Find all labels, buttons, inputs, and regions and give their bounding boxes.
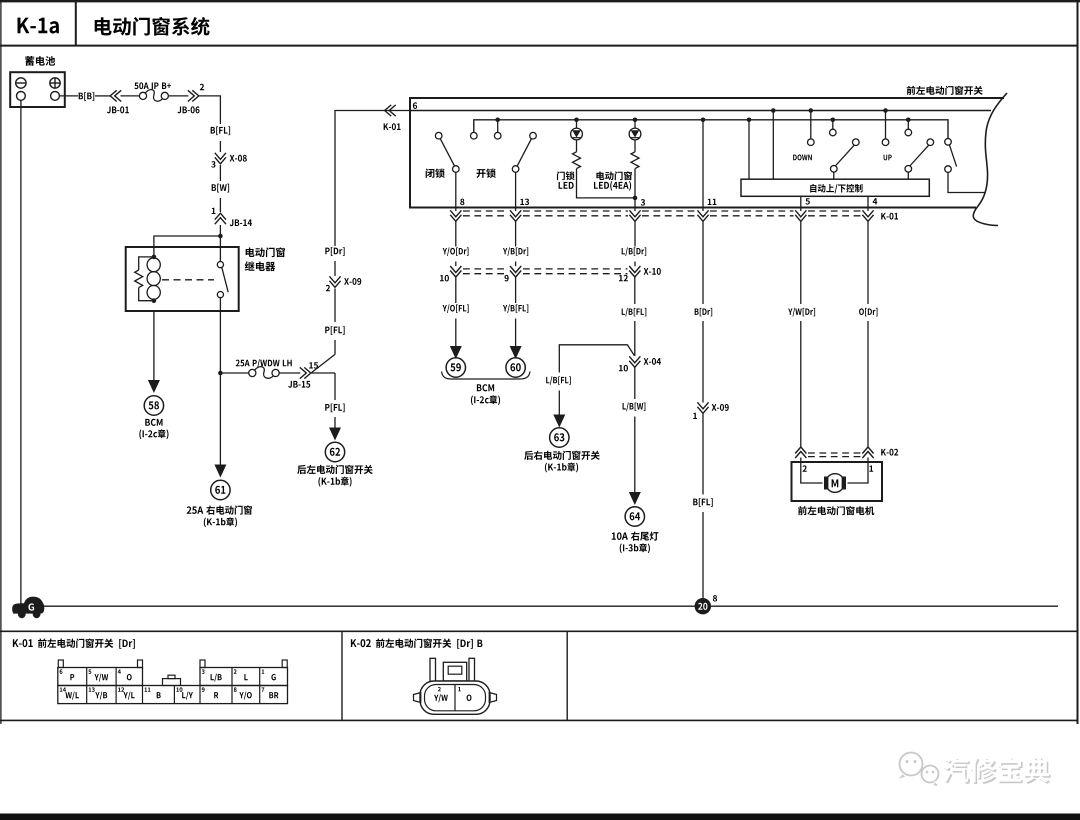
wire sub-bus to control box bbox=[747, 118, 752, 123]
node 63 bbox=[550, 428, 569, 447]
door lock LED bbox=[574, 118, 579, 123]
contact to sub-bus dot bbox=[495, 118, 500, 123]
prongs bbox=[430, 658, 436, 681]
wire bbox=[95, 95, 111, 97]
wire pin11 down bbox=[702, 221, 704, 304]
DOWN switch sub-bus contact bbox=[831, 118, 836, 123]
label lock bbox=[426, 169, 435, 178]
junction bbox=[218, 234, 223, 239]
front left window motor box bbox=[792, 462, 883, 501]
battery negative wire to ground bbox=[20, 100, 22, 606]
ground symbol car with G bbox=[12, 597, 44, 614]
battery bbox=[10, 72, 65, 107]
connector K-02 row bbox=[795, 452, 806, 459]
wire to corner bbox=[199, 96, 221, 124]
relay resistor parallel bbox=[139, 257, 154, 270]
UP switch blade contact bbox=[927, 139, 934, 146]
connector JB-06 bbox=[200, 84, 204, 90]
wire corner down bbox=[335, 111, 385, 247]
wire pin8 down bbox=[455, 221, 457, 247]
K-01 connector chevrons row bbox=[450, 210, 461, 217]
connector JB-15 pin 15 bbox=[300, 367, 307, 378]
node 60 bbox=[506, 358, 525, 377]
wire label B[W] bbox=[212, 184, 216, 191]
UP switch sub-bus contact bbox=[906, 118, 911, 123]
torn edge wave bbox=[973, 93, 1007, 226]
connector X-08 pin 3 bbox=[215, 153, 226, 160]
label BCM bbox=[477, 384, 482, 391]
connector section top line bbox=[0, 630, 1079, 632]
unlock switch common bbox=[512, 166, 519, 173]
page outer border right bbox=[1077, 0, 1079, 724]
battery plus post bbox=[51, 92, 60, 101]
connector X-09 pin 1 bbox=[697, 402, 708, 409]
label unlock bbox=[476, 169, 485, 178]
label BCM bbox=[145, 419, 150, 426]
node 59 bbox=[446, 358, 465, 377]
wire bus6 to control box bbox=[771, 108, 776, 113]
label I-2c bbox=[139, 430, 141, 440]
title K-1a bbox=[18, 18, 30, 34]
UP switch bus contact bbox=[883, 108, 888, 113]
power window LED(4EA) bbox=[633, 118, 638, 123]
pin 11 wire bbox=[701, 118, 706, 123]
rightmost switch contact bbox=[945, 139, 952, 146]
wire bbox=[219, 141, 221, 152]
watermark icon bbox=[900, 753, 939, 783]
bottom row labels bbox=[65, 692, 71, 698]
arrow to 64 bbox=[629, 492, 641, 505]
rightmost switch blade open bbox=[949, 145, 956, 167]
arrow to 58 bbox=[148, 380, 160, 393]
wire Y/O[FL] bbox=[455, 277, 457, 303]
center latch bbox=[163, 679, 181, 686]
connector X-04 pin 10 bbox=[629, 356, 640, 363]
arrow to 63 bbox=[553, 415, 565, 428]
unlock switch blade bbox=[517, 139, 531, 167]
latch bbox=[443, 662, 466, 681]
wire to motor pin 1 bbox=[867, 458, 869, 463]
relay switch output wire bbox=[219, 311, 221, 465]
diagonal joint bbox=[312, 354, 336, 372]
junction to window fuse bbox=[218, 371, 223, 376]
label DOWN bbox=[793, 155, 797, 161]
relay label line2 bbox=[245, 261, 255, 270]
DOWN switch bus contact bbox=[809, 108, 814, 113]
label door lock LED bbox=[557, 171, 565, 180]
lock switch contact bbox=[435, 132, 442, 139]
auto up/down control box bbox=[741, 179, 929, 196]
node 64 bbox=[625, 507, 644, 526]
contact to sub-bus bbox=[471, 132, 478, 139]
pin 8 wire bbox=[455, 172, 457, 211]
label UP bbox=[884, 155, 888, 161]
wire battery plus to fuse bbox=[59, 95, 78, 97]
wire label P[FL] bbox=[325, 404, 329, 411]
wire label B[FL] bbox=[211, 127, 215, 134]
label rear-right power window switch bbox=[524, 451, 533, 460]
bus 6 wire exiting switch to left bbox=[384, 110, 410, 112]
relay dashed actuator line bbox=[162, 279, 214, 281]
wire Y/W[Dr] bbox=[800, 221, 802, 304]
K-02 section label bbox=[351, 639, 357, 647]
DOWN switch blade bbox=[835, 145, 854, 166]
battery minus terminal bbox=[16, 78, 26, 88]
label rear-left power window switch bbox=[297, 465, 306, 474]
arrow to 60 bbox=[510, 346, 522, 359]
wire Y/B[FL] bbox=[515, 277, 517, 303]
relay coil bbox=[152, 255, 157, 260]
UP switch common bbox=[905, 166, 912, 173]
wire pin13 down bbox=[515, 221, 517, 247]
wire L/B[W] bbox=[634, 368, 636, 400]
node 62 bbox=[325, 442, 344, 461]
K-01 section label bbox=[13, 639, 19, 647]
pin 4 wire bbox=[867, 196, 869, 211]
relay switch bbox=[219, 247, 221, 262]
arrow to 62 bbox=[329, 428, 341, 441]
connector section bottom line bbox=[0, 719, 1079, 721]
page outer border top bbox=[0, 0, 1080, 2]
label Y/B[Dr] bbox=[503, 248, 507, 254]
UP switch blade bbox=[910, 145, 929, 166]
label 25A right power window bbox=[187, 506, 192, 513]
sub bus line bbox=[474, 120, 948, 139]
inner oval bbox=[425, 685, 486, 711]
power window relay box bbox=[126, 247, 239, 311]
wire L/B[FL] bbox=[634, 277, 636, 304]
label 10A right tail lamp bbox=[612, 533, 616, 540]
LED resistor bbox=[634, 140, 636, 152]
wire label P[FL] bbox=[325, 327, 329, 334]
wire down to 62 bbox=[334, 373, 336, 400]
front left power window switch label bbox=[907, 86, 916, 95]
wire O[Dr] bbox=[867, 221, 869, 304]
ground bus bbox=[43, 605, 1058, 607]
branch to 63 bbox=[559, 345, 634, 373]
connector X-10 row bbox=[450, 266, 461, 273]
label Y/O[Dr] bbox=[443, 248, 447, 254]
fuse 50A IP B+ bbox=[134, 82, 138, 89]
watermark text bbox=[944, 759, 970, 784]
lock switch blade bbox=[440, 139, 454, 167]
section divider 2 bbox=[566, 631, 568, 720]
top row right group bbox=[200, 668, 288, 686]
relay coil wire bbox=[153, 247, 155, 258]
title bar separator line bbox=[0, 45, 1079, 47]
LED resistor bbox=[576, 140, 578, 152]
connector JB-14 pin 1 bbox=[212, 208, 216, 214]
DOWN switch common bbox=[831, 166, 838, 173]
wire to pin3 join bbox=[577, 169, 636, 198]
arrow to 59 bbox=[450, 346, 462, 359]
outer oval bbox=[420, 681, 490, 714]
wire to relay coil bbox=[154, 236, 221, 247]
pin 5 wire bbox=[800, 196, 802, 211]
wire bbox=[121, 95, 140, 97]
dashed link lines bbox=[463, 210, 509, 212]
connector JB-01 bbox=[115, 90, 122, 101]
lock switch common bbox=[453, 166, 460, 173]
rightmost switch lower contact bbox=[945, 166, 952, 173]
bottom black bar bbox=[0, 814, 1080, 820]
arrow to 61 bbox=[214, 465, 226, 478]
unlock switch blade contact bbox=[530, 132, 537, 139]
label B[Dr] bbox=[695, 308, 699, 314]
connector X-09 pin 2 bbox=[329, 276, 340, 283]
junction pin 3 bbox=[633, 196, 638, 201]
motor M bbox=[824, 477, 828, 490]
DOWN switch blade contact bbox=[853, 139, 860, 146]
wire bbox=[219, 225, 221, 247]
bus 6 line bbox=[410, 110, 991, 112]
wire bbox=[334, 261, 336, 276]
top row labels bbox=[70, 674, 74, 680]
switch box outline bbox=[410, 98, 1004, 208]
title text bbox=[95, 17, 112, 35]
relay coil output wire bbox=[153, 311, 155, 380]
wire bbox=[219, 165, 221, 181]
pin 13 wire bbox=[515, 172, 517, 211]
wire to torn edge bbox=[948, 172, 985, 192]
node 20 ground junction bbox=[695, 598, 711, 614]
wire B[FL] bbox=[702, 414, 704, 495]
fuse 25A P/WDW LH bbox=[236, 360, 240, 367]
label front left power window motor bbox=[798, 506, 807, 515]
battery label bbox=[25, 56, 34, 66]
wire bbox=[279, 372, 300, 374]
label window LED bbox=[596, 171, 604, 180]
node 61 bbox=[211, 480, 230, 499]
node 58 bbox=[144, 396, 163, 415]
page outer border left bbox=[0, 0, 2, 724]
wire bbox=[169, 95, 189, 97]
wire bbox=[219, 198, 221, 212]
bottom row bbox=[58, 686, 288, 704]
wire bbox=[311, 372, 335, 374]
wire bbox=[334, 289, 336, 323]
wire label P[Dr] bbox=[325, 248, 329, 255]
side wings bbox=[414, 693, 421, 703]
connector K-01 top bbox=[389, 105, 396, 116]
mounting tabs bbox=[58, 660, 63, 668]
label K-1b bbox=[204, 518, 206, 528]
wire pin3 down bbox=[634, 221, 636, 247]
title cell divider bbox=[75, 0, 77, 46]
wire label B[B] bbox=[79, 93, 83, 100]
relay label line1 bbox=[246, 248, 255, 257]
top row left group bbox=[58, 668, 143, 686]
wire junction to fuse 25A bbox=[220, 372, 248, 374]
label L/B[Dr] bbox=[622, 248, 625, 254]
battery plus terminal bbox=[50, 78, 60, 88]
motor wires bbox=[801, 462, 823, 483]
battery minus post bbox=[17, 92, 26, 101]
section divider 1 bbox=[341, 631, 343, 720]
BCM brace bbox=[442, 372, 531, 380]
wire to motor pin 2 bbox=[800, 458, 802, 463]
